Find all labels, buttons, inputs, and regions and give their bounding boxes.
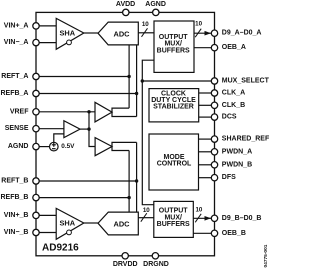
svg-text:10: 10	[195, 21, 202, 28]
pin SHARED_REF	[211, 136, 217, 142]
pin VREF	[33, 109, 39, 115]
pin AGND left	[33, 143, 39, 149]
svg-text:10: 10	[142, 21, 149, 28]
pin DRVDD	[122, 253, 128, 259]
wire REFT_A	[36, 76, 129, 78]
bus output mux A to D9_A pin (10)	[194, 32, 211, 34]
svg-text:SHARED_REF: SHARED_REF	[222, 136, 270, 143]
bus slash B in	[141, 213, 147, 222]
pin OEB_B	[211, 230, 217, 236]
wire SHARED_REF	[199, 138, 212, 140]
pin labels right	[222, 30, 270, 237]
ADC B	[98, 212, 138, 235]
svg-text:AGND: AGND	[145, 1, 166, 8]
svg-text:SHA: SHA	[59, 29, 75, 38]
wire VREF	[36, 111, 95, 113]
wire MUX_SELECT to both output mux blocks	[142, 60, 154, 205]
source 0.5V reference	[50, 142, 59, 151]
wire VIN-_A	[36, 42, 56, 44]
pin PWDN_B	[211, 162, 217, 168]
wire ref amp A outputs	[112, 108, 137, 116]
wire VIN+_A	[36, 25, 56, 27]
bus slash B out	[195, 214, 201, 223]
pin VIN+_B	[33, 212, 39, 218]
svg-text:REFB_A: REFB_A	[0, 90, 28, 97]
rail REFB_B	[128, 151, 130, 213]
svg-text:04775-001: 04775-001	[263, 244, 269, 267]
svg-text:REFT_B: REFT_B	[1, 178, 28, 185]
wire 0.5V to VREF amp	[54, 134, 64, 142]
svg-text:DRVDD: DRVDD	[113, 261, 138, 268]
pin D9_A-D0_A	[211, 30, 217, 36]
svg-text:D9_A–D0_A: D9_A–D0_A	[222, 30, 262, 37]
wire OEB_A	[194, 47, 211, 49]
block CLOCK DUTY CYCLE STABILIZER	[149, 89, 199, 122]
pin DFS	[211, 175, 217, 181]
svg-text:OEB_A: OEB_A	[222, 44, 246, 51]
wire SHA A to ADC A	[84, 32, 98, 34]
svg-text:VIN+_A: VIN+_A	[4, 22, 29, 29]
wire VREF amp output	[80, 128, 89, 130]
pin CLK_A	[211, 90, 217, 96]
SHA B bubble	[67, 230, 72, 235]
block OUTPUT MUX/BUFFERS A	[154, 21, 194, 72]
svg-text:BUFFERS: BUFFERS	[157, 47, 190, 54]
rail REFT_B	[136, 142, 138, 212]
svg-text:AGND: AGND	[8, 143, 29, 150]
svg-text:MUX_SELECT: MUX_SELECT	[222, 78, 270, 85]
svg-text:VIN+_B: VIN+_B	[4, 212, 29, 219]
svg-text:10: 10	[143, 207, 150, 214]
svg-text:PWDN_A: PWDN_A	[222, 148, 252, 155]
pin VIN-_A	[33, 39, 39, 45]
svg-text:REFT_A: REFT_A	[1, 73, 28, 80]
svg-text:VIN−_A: VIN−_A	[4, 39, 29, 46]
wire VIN-_B	[36, 232, 56, 234]
svg-text:BUFFERS: BUFFERS	[157, 221, 190, 228]
svg-text:SHA: SHA	[59, 219, 75, 228]
svg-text:PWDN_B: PWDN_B	[222, 161, 252, 168]
svg-text:CONTROL: CONTROL	[157, 160, 192, 167]
svg-text:VIN−_B: VIN−_B	[4, 229, 29, 236]
rail REFB_A	[136, 45, 138, 117]
pin DCS	[211, 114, 217, 120]
pin CLK_B	[211, 102, 217, 108]
svg-text:REFB_B: REFB_B	[0, 194, 28, 201]
pin REFB_B	[33, 194, 39, 200]
pin AGND top	[153, 9, 159, 15]
svg-text:CLK_A: CLK_A	[222, 90, 245, 97]
svg-text:STABILIZER: STABILIZER	[153, 103, 194, 110]
block MODE CONTROL	[149, 134, 199, 190]
bus output mux B to D9_B pin (10)	[193, 217, 211, 219]
pin SENSE	[33, 126, 39, 132]
amplifier SHA (channel A)	[56, 18, 84, 49]
wire SENSE	[36, 128, 64, 130]
pin REFB_A	[33, 90, 39, 96]
pin VIN-_B	[33, 229, 39, 235]
bus ADC A to output mux (10)	[139, 32, 155, 34]
junction REFB_B	[127, 196, 130, 199]
wire AGND to 0.5V source	[36, 146, 50, 148]
amplifier SHA (channel B)	[56, 208, 84, 239]
wire MUX_SELECT pin	[142, 80, 211, 82]
junction VREF	[87, 110, 90, 113]
pin labels left	[0, 22, 29, 236]
pin REFT_B	[33, 178, 39, 184]
pin REFT_A	[33, 73, 39, 79]
pin D9_B-D0_B	[211, 215, 217, 221]
wire REFT_B	[36, 180, 137, 182]
svg-text:AVDD: AVDD	[116, 1, 135, 8]
pin PWDN_A	[211, 149, 217, 155]
junction REFT_A	[127, 75, 130, 78]
wire REFB_B	[36, 197, 129, 199]
pin MUX_SELECT	[211, 78, 217, 84]
svg-text:DFS: DFS	[222, 174, 236, 181]
SHA A bubble	[67, 40, 72, 45]
svg-text:ADC: ADC	[113, 219, 130, 228]
junction VREF amp output	[87, 127, 90, 130]
svg-text:D9_B–D0_B: D9_B–D0_B	[222, 215, 262, 222]
chip outline AD9216	[36, 12, 215, 255]
svg-text:VREF: VREF	[10, 108, 29, 115]
bus ADC B to output mux (10)	[139, 217, 154, 219]
op-amp VREF amplifier	[64, 121, 80, 138]
rail REFT_A	[128, 45, 130, 108]
arrowhead D9_B	[205, 216, 212, 221]
svg-text:ADC: ADC	[113, 29, 130, 38]
wire ref amp B outputs	[112, 142, 137, 150]
svg-text:CLK_B: CLK_B	[222, 102, 245, 109]
wire DFS	[199, 177, 212, 179]
pins: circles	[33, 9, 218, 259]
junction MUX_SELECT	[141, 79, 144, 82]
junction REFB_A	[135, 92, 138, 95]
block OUTPUT MUX/BUFFERS B	[154, 201, 194, 237]
pin VIN+_A	[33, 23, 39, 29]
wire PWDN_B	[199, 164, 212, 166]
arrowhead D9_A	[205, 31, 212, 36]
wire VREF rail to ref amp B	[89, 112, 95, 147]
wire VIN+_B	[36, 214, 56, 216]
svg-text:SENSE: SENSE	[5, 125, 29, 132]
pin DRGND	[152, 253, 158, 259]
bus slash A in	[142, 28, 148, 37]
bus slash A out	[195, 29, 201, 38]
op-amp reference buffer B	[95, 138, 112, 156]
pin AVDD	[123, 9, 129, 15]
svg-text:DRGND: DRGND	[143, 261, 169, 268]
pin OEB_A	[211, 45, 217, 51]
svg-text:AD9216: AD9216	[42, 243, 79, 254]
wire OEB_B	[193, 232, 211, 234]
wire CLK_B	[199, 104, 212, 106]
svg-text:OEB_B: OEB_B	[222, 230, 246, 237]
ADC A	[98, 22, 138, 45]
wire PWDN_A	[199, 151, 212, 153]
op-amp reference buffer A	[95, 102, 112, 122]
wire DCS	[199, 116, 212, 118]
wire CLK_A	[199, 92, 212, 94]
wire REFB_A	[36, 93, 137, 95]
svg-text:DCS: DCS	[222, 114, 237, 121]
wire SHA B to ADC B	[84, 222, 98, 224]
svg-text:10: 10	[195, 206, 202, 213]
svg-text:0.5V: 0.5V	[61, 143, 75, 150]
junction REFT_B	[135, 179, 138, 182]
